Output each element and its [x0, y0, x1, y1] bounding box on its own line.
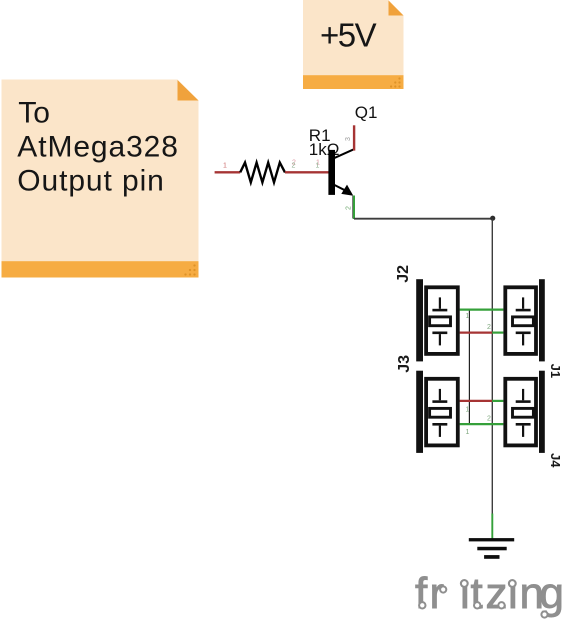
svg-text:1: 1	[466, 313, 470, 320]
sticky note AtMega bottom bar	[2, 261, 199, 277]
sticky note +5V fold corner	[389, 1, 404, 16]
svg-text:2: 2	[292, 163, 296, 170]
fritzing logo	[415, 569, 564, 618]
svg-text:1: 1	[466, 407, 470, 414]
label 1k ohm	[309, 140, 340, 159]
pin label 1 (J3 pin)	[466, 407, 470, 414]
svg-text:AtMega328: AtMega328	[17, 131, 179, 164]
pin label 1 (resistor left)	[223, 163, 227, 170]
wire: main horizontal	[354, 218, 492, 220]
svg-text:1: 1	[316, 163, 320, 170]
resistor R1 zigzag	[240, 163, 285, 183]
svg-text:Output pin: Output pin	[17, 165, 164, 198]
svg-text:2: 2	[346, 206, 353, 210]
ground symbol	[469, 538, 514, 559]
transistor Q1 collector line	[335, 150, 354, 158]
label Q1	[355, 103, 378, 122]
wire: base red right segment	[285, 171, 331, 173]
wire: main vertical	[491, 219, 493, 515]
svg-text:3: 3	[345, 137, 352, 141]
transistor Q1 emitter arrow	[341, 185, 353, 196]
sticky note +5V grip dots	[390, 77, 401, 87]
pin label 3 (collector, rotated)	[345, 137, 352, 141]
pin label 2 (resistor right)	[292, 160, 297, 170]
pin label 1 (J2 pin1)	[466, 313, 470, 320]
wire: base red left segment	[215, 171, 241, 173]
pin label 1 (transistor base)	[316, 160, 321, 170]
sticky note +5V body	[303, 0, 404, 89]
speaker J1	[505, 279, 545, 361]
label +5V	[320, 17, 377, 54]
label J1	[548, 364, 563, 378]
wire: ground green stub	[491, 514, 493, 540]
wire: top red horizontal	[460, 332, 504, 334]
svg-text:Q1: Q1	[355, 103, 378, 122]
pin label 1 (bottom green)	[466, 429, 470, 436]
svg-text:1: 1	[223, 163, 227, 170]
svg-text:2: 2	[487, 324, 491, 331]
pin label 2 (bottom pair)	[487, 416, 491, 423]
label To AtMega328 Output pin	[17, 96, 179, 197]
wire: emitter pin black edge	[352, 196, 354, 219]
sticky note +5V bottom bar	[303, 75, 404, 89]
svg-text:+5V: +5V	[320, 17, 377, 54]
label J4	[548, 453, 563, 468]
wire: top green horizontal	[460, 309, 504, 311]
pin label 2 (top pair)	[487, 324, 491, 331]
label R1	[309, 126, 331, 145]
speaker J2	[416, 279, 458, 361]
wire: emitter green vertical	[353, 196, 355, 220]
label J2	[395, 265, 412, 283]
svg-text:fritzing: fritzing	[415, 569, 564, 618]
wire: bottom green horizontal	[460, 423, 504, 425]
wire: thin link vertical	[468, 310, 470, 425]
svg-text:J4: J4	[548, 453, 563, 468]
svg-text:2: 2	[487, 416, 491, 423]
junction dot	[490, 216, 495, 221]
speaker J3	[416, 371, 458, 453]
svg-text:J1: J1	[548, 364, 563, 378]
svg-text:1: 1	[466, 429, 470, 436]
svg-text:J3: J3	[396, 355, 413, 373]
transistor Q1 emitter line	[335, 185, 346, 190]
sticky note AtMega fold corner	[178, 80, 199, 101]
sticky note "To AtMega328 Output pin" body	[2, 80, 199, 278]
wire: collector red vertical	[353, 125, 355, 150]
pin label 2 (emitter, rotated)	[346, 206, 353, 210]
svg-text:J2: J2	[395, 265, 412, 283]
sticky note AtMega grip dots	[184, 264, 195, 275]
svg-text:To: To	[18, 96, 50, 129]
label J3	[396, 355, 413, 373]
speaker J4	[505, 371, 545, 453]
wire: bottom red horizontal	[460, 400, 504, 402]
transistor Q1 bar	[328, 150, 335, 195]
